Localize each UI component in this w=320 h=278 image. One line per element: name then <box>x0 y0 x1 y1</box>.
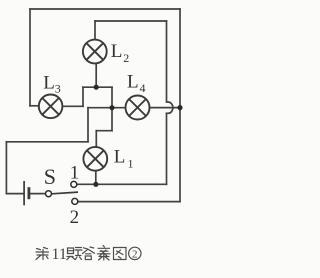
wire far right rail <box>179 9 181 202</box>
caption circled 2 <box>129 247 141 259</box>
svg-text:L: L <box>111 41 123 62</box>
wire staircase horizontal <box>96 130 112 132</box>
wire battery to switch lead <box>30 193 45 195</box>
svg-text:L: L <box>127 72 139 93</box>
wire L2 bottom <box>95 63 97 87</box>
lamp L3 <box>39 95 63 119</box>
lamp L2 <box>83 40 107 64</box>
svg-text:2: 2 <box>70 207 80 228</box>
lamp L4 <box>126 96 150 120</box>
svg-text:2: 2 <box>123 51 129 65</box>
wire inner bottom run to terminal 1 <box>76 183 166 185</box>
terminal 2 <box>72 198 78 204</box>
battery short plate <box>27 187 30 199</box>
caption char TU (图) <box>114 248 127 260</box>
lamp L1 <box>83 147 107 171</box>
svg-text:1: 1 <box>70 162 80 183</box>
switch S pivot <box>46 191 52 197</box>
wire left upper vertical <box>29 9 31 106</box>
wire L4 right <box>150 107 181 109</box>
svg-text:11: 11 <box>52 246 67 263</box>
caption char AN (案) <box>98 246 111 261</box>
wire L3 lead-in <box>30 105 39 107</box>
junction node below L2 <box>94 85 99 90</box>
svg-text:L: L <box>114 147 126 168</box>
junction node right rail <box>177 105 182 110</box>
wire inner right rail upper with hop <box>167 21 173 113</box>
junction node below L1 <box>93 182 98 187</box>
wire battery left vertical <box>5 142 7 194</box>
wire inner right rail lower <box>166 113 168 184</box>
svg-text:2: 2 <box>132 249 138 261</box>
wire inner top rail <box>95 20 167 22</box>
wire battery negative rail horizontal <box>6 141 88 143</box>
wire outer top rail <box>30 8 180 10</box>
terminal 1 <box>71 181 77 187</box>
svg-text:S: S <box>44 164 56 189</box>
svg-text:3: 3 <box>55 82 61 96</box>
junction node mid 4-way <box>109 105 114 110</box>
wire riser L3 to L2 junction <box>82 87 84 106</box>
wire L1 bottom <box>95 171 97 185</box>
caption: hand-drawn CJK strokes <box>36 246 126 261</box>
wire L1 top <box>95 131 97 147</box>
wire L2 top <box>94 21 96 40</box>
svg-text:4: 4 <box>140 81 146 95</box>
svg-text:L: L <box>43 72 55 93</box>
wire L3 right <box>62 105 83 107</box>
svg-text:1: 1 <box>128 157 134 171</box>
wire bottom right run to terminal 2 <box>78 201 180 203</box>
wire battery left lead <box>6 193 23 195</box>
battery long plate <box>23 181 25 205</box>
switch lever <box>52 192 78 194</box>
wire mid horizontal to L4 <box>88 107 126 109</box>
caption char TI (题) <box>67 248 82 260</box>
caption char DA (答) <box>83 247 95 260</box>
wire horizontal y87 <box>83 86 112 88</box>
caption char DI (第) <box>36 248 49 260</box>
wire battery negative rail vertical <box>87 108 89 142</box>
wire staircase vertical <box>111 87 113 131</box>
